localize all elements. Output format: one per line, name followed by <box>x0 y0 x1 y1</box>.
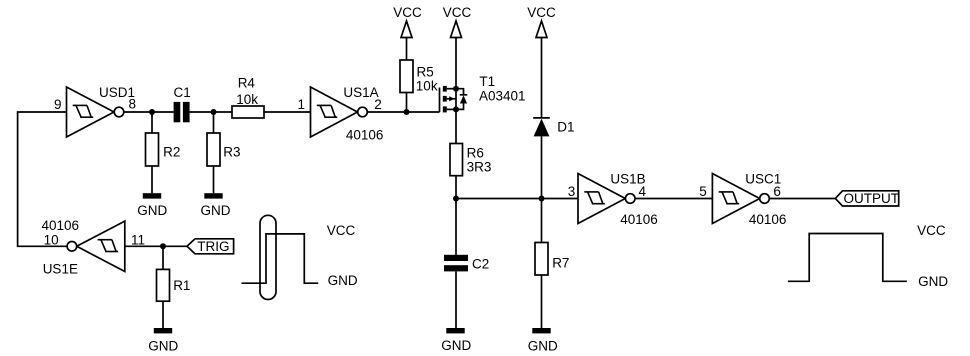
svg-text:C2: C2 <box>472 257 489 272</box>
svg-text:R7: R7 <box>552 256 569 271</box>
svg-text:US1B: US1B <box>610 172 645 187</box>
svg-text:3: 3 <box>568 184 576 199</box>
svg-text:GND: GND <box>528 339 558 354</box>
svg-text:3R3: 3R3 <box>467 160 492 175</box>
svg-text:11: 11 <box>131 233 145 248</box>
svg-text:VCC: VCC <box>527 5 556 20</box>
svg-text:A03401: A03401 <box>479 89 526 104</box>
svg-text:USD1: USD1 <box>99 85 135 100</box>
svg-text:GND: GND <box>328 273 358 288</box>
svg-text:C1: C1 <box>174 85 191 100</box>
svg-text:GND: GND <box>201 203 231 218</box>
svg-text:40106: 40106 <box>42 218 80 233</box>
svg-text:D1: D1 <box>557 120 574 135</box>
svg-text:40106: 40106 <box>346 127 384 142</box>
svg-text:TRIG: TRIG <box>197 239 229 254</box>
svg-text:OUTPUT: OUTPUT <box>844 191 900 206</box>
svg-text:R3: R3 <box>223 145 240 160</box>
svg-text:R6: R6 <box>467 146 484 161</box>
svg-text:10k: 10k <box>236 92 258 107</box>
svg-text:10k: 10k <box>416 79 438 94</box>
svg-text:VCC: VCC <box>443 5 472 20</box>
svg-text:T1: T1 <box>479 74 495 89</box>
svg-text:R1: R1 <box>173 278 190 293</box>
svg-text:USC1: USC1 <box>745 172 781 187</box>
svg-text:VCC: VCC <box>917 223 946 238</box>
svg-text:VCC: VCC <box>327 223 356 238</box>
svg-text:US1E: US1E <box>43 261 78 276</box>
svg-text:GND: GND <box>148 339 178 354</box>
svg-text:10: 10 <box>44 233 59 248</box>
svg-text:VCC: VCC <box>393 5 422 20</box>
svg-text:5: 5 <box>699 184 707 199</box>
svg-text:GND: GND <box>441 338 471 353</box>
svg-text:2: 2 <box>374 97 382 112</box>
svg-text:R2: R2 <box>163 145 180 160</box>
svg-text:40106: 40106 <box>749 212 787 227</box>
svg-text:40106: 40106 <box>620 212 658 227</box>
svg-text:R4: R4 <box>238 76 256 91</box>
svg-text:9: 9 <box>54 97 62 112</box>
svg-text:GND: GND <box>918 274 948 289</box>
svg-text:1: 1 <box>297 97 305 112</box>
svg-text:GND: GND <box>137 203 167 218</box>
svg-text:R5: R5 <box>417 64 434 79</box>
